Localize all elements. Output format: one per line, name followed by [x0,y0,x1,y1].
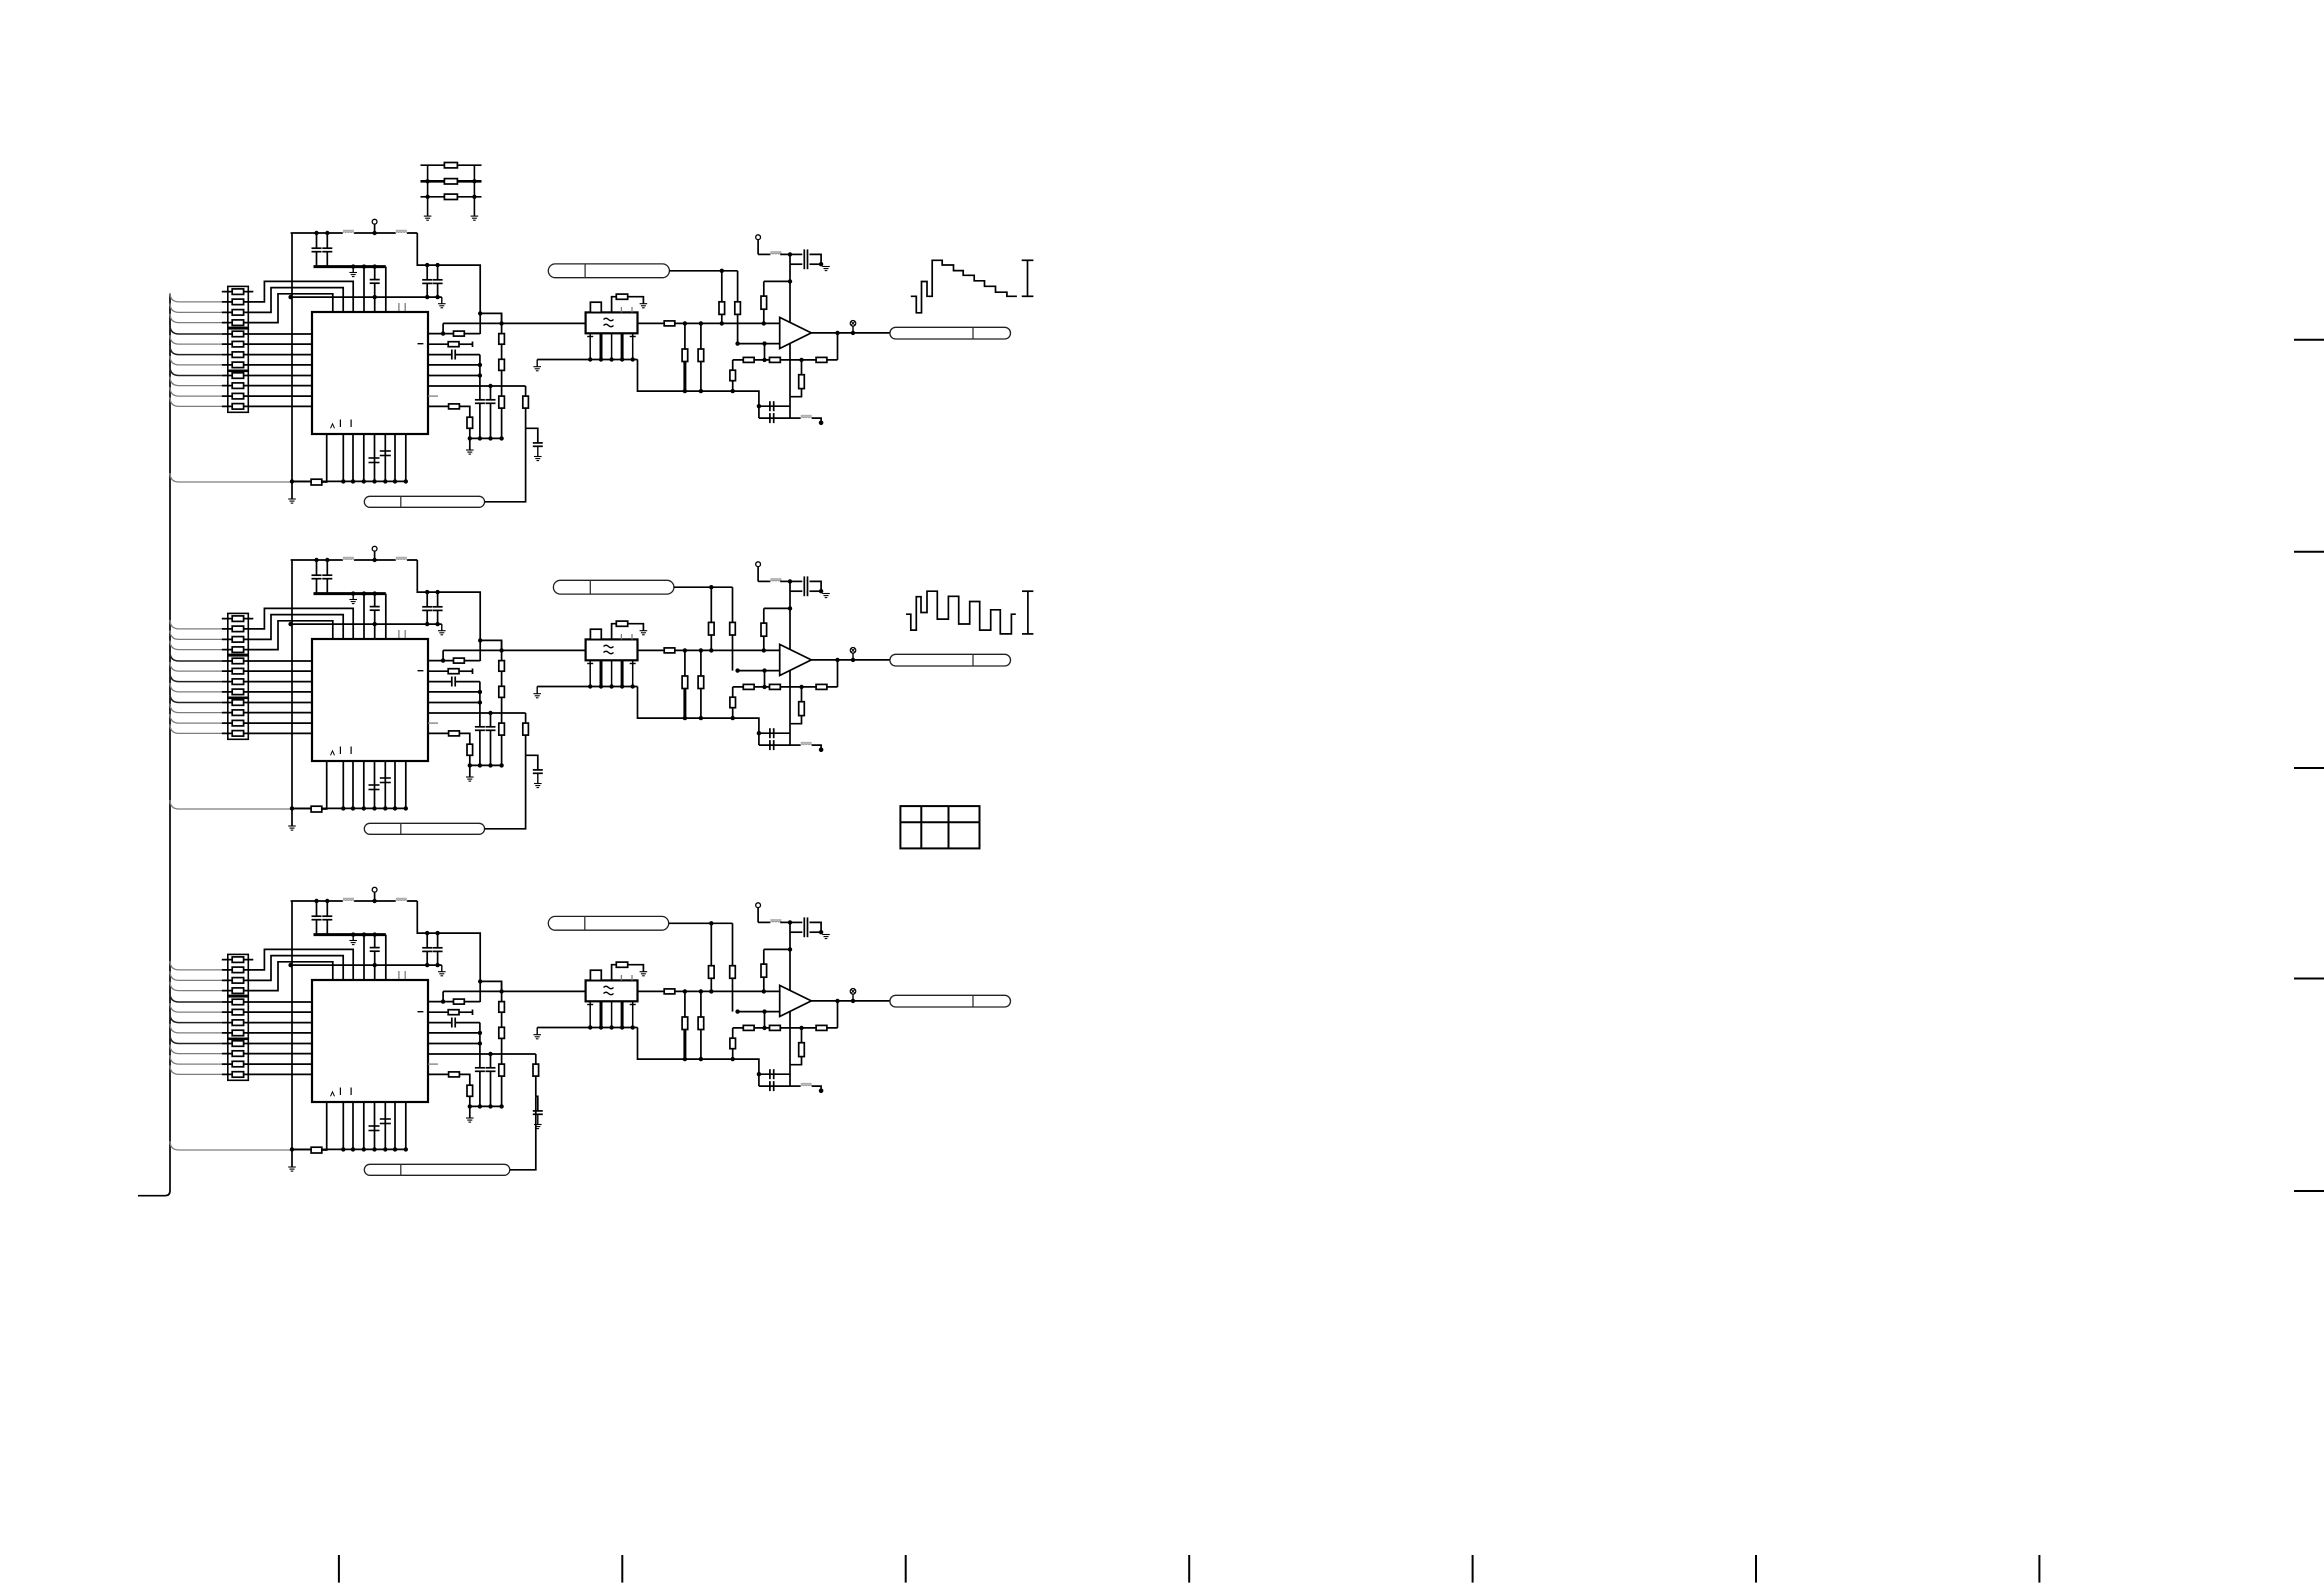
ground filter rail 1 [533,360,541,371]
resistor network RN1c frame [228,371,249,412]
wire ladder row7 to IC 1 [222,354,312,356]
wire ladder row2 to IC top 2 [222,608,353,639]
op-amp A1 [780,317,812,348]
resistor R2 x470 [467,744,473,755]
resistor R2 fb2 [770,684,781,689]
resistor R2 fb3 [816,684,827,689]
wire R1L to IC [322,434,327,482]
capacitor C2 pin5 [380,778,391,783]
resistor R103 [232,310,243,316]
resistor R2 fb1 [743,684,754,689]
ground filter rail 3 [533,1028,541,1039]
wire bus branch 3.10 [170,1055,222,1064]
wire x470 to gnd 2 [468,755,472,777]
wire IC out row1 1 [428,331,454,335]
IC U3 pin1 mark [331,1092,335,1097]
wire IC row8 1 [428,405,449,407]
resistor R3 fb3 [816,1025,827,1030]
wire AVDD to IC pin 3 [362,932,366,980]
resistor R2 x733 [730,687,736,718]
capacitor C2 mid [370,591,380,639]
wire IC bottom pins 1 [341,434,408,484]
resistor R302 [232,967,243,973]
node 2 rail junction [478,638,482,642]
resistor R1 row8 [449,404,460,409]
resistor network RN2b frame [228,656,249,698]
terminal VDD 2 [372,546,377,562]
ground IC left 2 [288,826,296,830]
capacitor C1 row3 [428,350,480,360]
wire riser to filter line 1 [442,323,444,333]
wire filter gnd rail 3 [537,1027,637,1029]
resistor R3 x470 [467,1085,473,1096]
wire bus branch 3.12 [170,1141,311,1150]
wire ladder row3 to IC top 2 [222,615,343,640]
resistor R2 filter top [612,621,644,639]
fold tick bottom 7 [2038,1555,2040,1583]
net label pill top 3 [548,916,668,930]
resistor R104 [232,320,243,326]
wire bus branch 3.11 [170,1065,222,1074]
resistor R3 filter top [612,962,644,980]
wire IC bottom pins 3 [341,1102,408,1152]
wire gray IC pin stub 2a [398,630,400,639]
capacitor C2 at x438 [433,590,443,626]
wire ladder row5 to IC 3 [222,1001,312,1003]
resistor R3 pillnet1 [709,923,715,993]
wire bus branch 1.10 [170,387,222,396]
wire IC row8 3 [428,1073,449,1075]
capacitor C3 x490 [486,1054,496,1106]
resistor R2 filter out [664,648,675,653]
wire to opamp 1 [675,321,780,325]
wire pill top 3 [669,921,733,925]
wire gray IC pin stub 2b [404,630,406,639]
wire R3L to IC [322,1102,327,1150]
wire lower rail 1 [470,436,504,440]
wire IC bottom rail 2 [292,807,406,809]
ground x470 2 [466,777,474,781]
wire filter input line 1 [443,321,585,325]
wire ground line 3 [288,963,441,967]
wire analog gnd rail 2 [638,687,759,734]
wire minus input 2 [735,668,779,672]
resistor R206 [232,668,243,674]
ground IC left 1 [288,499,296,503]
fold tick right 1 [2294,339,2324,341]
resistor R2 row2 [448,669,459,674]
wire filter top stubs 1 [621,307,632,312]
resistor R210 [232,710,243,716]
wire ladder row11 to IC 1 [222,395,312,397]
wire fb riser 1 [764,344,766,360]
resistor R1 x470 [467,417,473,428]
capacitor C1 row406 [757,401,790,411]
wire bus branch 1.3 [170,314,222,323]
wire bus branch 2.3 [170,641,222,650]
resistor R3 filter out [664,989,675,994]
wire ground line 2 [288,622,441,626]
wire ladder row6 to IC 1 [222,343,312,345]
resistor R308 [232,1030,243,1036]
resistor R2 pillnet2 [730,587,736,670]
wire row2 end 2 [459,669,473,675]
resistor R2 x701 [698,650,704,718]
wire 3R row1 [421,164,482,166]
node 3 rail junction [478,979,482,983]
resistor R1a [444,163,457,168]
fold tick right 4 [2294,978,2324,980]
ferrite bead FB31 [343,898,354,901]
wire bus branch 3.3 [170,982,222,991]
wire filter top stubs 2 [621,634,632,639]
wire row8 bend 1 [459,406,470,417]
wire AVDD end pin 1 [385,267,387,312]
IC U3 index marks [340,1088,351,1096]
table grid [900,806,979,848]
wire gray IC pin stub 3b [404,971,406,980]
wire bus branch 3.4 [170,993,222,1002]
wire riser to filter line 3 [442,991,444,1001]
filter FL3 glyph [604,986,614,995]
wire AVDD bold rail 3 [314,933,386,936]
wire bus branch 2.2 [170,630,222,639]
wire opamp rail 3 [788,922,792,1086]
capacitor C1 pin4 [369,458,380,463]
resistor R1 pillnet2 [735,271,741,344]
wire output 3 [811,999,890,1003]
wire ladder row10 to IC 1 [222,385,312,387]
resistor R304 [232,988,243,994]
resistor R211 [232,720,243,726]
ferrite bead FB21 [343,557,354,560]
wire rail corner 2 [417,560,480,661]
resistor R301 [232,957,243,963]
fold tick bottom 2 [621,1555,623,1583]
wire bus branch 1.4 [170,325,222,334]
wire bus branch 2.1 [170,620,222,629]
resistor R3 fb2 [770,1025,781,1030]
wire VDD rail 2 [291,559,418,561]
terminal VDD 1 [372,219,377,235]
wire cap branch 3 [536,1096,538,1111]
filter FL1 glyph [604,318,614,327]
wire filter gnd rail 2 [537,686,637,688]
wire row8 bend 2 [459,733,470,744]
wire IC row4 2 [428,691,480,693]
resistor R106 [232,341,243,347]
wire ladder row4 to IC top 2 [222,621,333,650]
resistor R108 [232,362,243,368]
wire IC row4 1 [428,364,480,366]
wire ladder row1 3 [222,959,254,961]
resistor R2L [311,806,322,812]
waveform square scale bar [1022,591,1033,634]
ferrite bead FB34 [758,920,792,925]
wire IC left vertical 2 [290,560,294,826]
wire riser to filter line 2 [442,650,444,660]
op-amp A3 [780,985,812,1016]
resistor chain x502 3 [499,981,505,1106]
resistor R204 [232,647,243,653]
capacitor C2 vplus a [790,576,821,591]
resistor R1 x685 [682,323,688,391]
filter FL2 [586,639,638,660]
wire IC row5 1 [428,363,482,378]
resistor R2 x801 [790,687,804,724]
terminal V+ 3 [756,903,761,923]
net label pill bottom 1 [364,496,484,507]
wire bus spine [138,294,170,1196]
resistor R3 pillnet2 [730,923,736,1011]
wire filter gnd rail 1 [537,359,637,361]
resistor R3 fb1 [743,1025,754,1030]
capacitor C3 row418 [759,1074,790,1091]
ferrite bead FB22 [396,557,407,560]
resistor R3 x685 [682,991,688,1059]
wire x470 to gnd 1 [468,428,472,450]
resistor R1 row1 [454,331,465,336]
wire IC bottom rail 1 [292,480,406,482]
resistor cluster rails [428,165,475,216]
wire filter input line 2 [443,648,585,652]
capacitor C1 pin5 [380,451,391,456]
ground x538 3 [534,1125,542,1129]
terminal out 3 [850,989,856,1001]
net label pill out 3 [890,995,1011,1007]
resistor network RN2c frame [228,698,249,739]
capacitor C1 decouple x327 [322,231,332,267]
resistor R202 [232,626,243,632]
fold tick bottom 4 [1188,1555,1190,1583]
wire bus branch 3.1 [170,961,222,970]
wire AVDD bold rail 1 [314,265,386,268]
wire IC row5 3 [428,1031,482,1046]
wire ladder row6 to IC 3 [222,1011,312,1013]
fold tick bottom 5 [1472,1555,1474,1583]
fold tick bottom 6 [1755,1555,1757,1583]
resistor R1 fb top [761,296,767,309]
waveform staircase [911,260,1017,313]
resistor R110 [232,383,243,389]
capacitor C3 vplus a [790,917,821,932]
resistor R2 row8 [449,731,460,736]
wire riser x526 1 [525,386,527,428]
wire fb top 2 [764,608,790,623]
wire IC out row1 2 [428,658,454,662]
resistor R1 x801 [790,360,804,397]
IC U1 pin1 mark [331,424,335,429]
wire bus branch 3.2 [170,971,222,980]
resistor R2 row1 [454,658,465,663]
wire AVDD to IC pin 2 [362,591,366,639]
wire ladder row4 to IC top 1 [222,294,333,323]
capacitor C2 row418 [759,733,790,750]
capacitor C2 vplus b [790,586,821,596]
wire bus branch 1.8 [170,367,222,376]
wire pill bottom 3 [510,1096,536,1170]
wire to opamp 3 [675,989,780,993]
wire 3R row3 [421,195,482,199]
net label pill bottom 3 [364,1164,510,1175]
resistor R2 x526 [523,723,529,735]
capacitor C2 row406 [757,728,790,738]
wire bus branch 3.5 [170,1003,222,1012]
wire ladder row9 to IC 1 [222,375,312,377]
wire to opamp 2 [675,648,780,652]
wire minus input 1 [735,341,779,345]
waveform square [906,591,1016,634]
ferrite bead FB13 [790,416,821,422]
wire IC row7 stub 3 [428,1063,438,1065]
IC U2 [312,639,428,761]
wire filter input line 3 [443,989,585,993]
resistor R306 [232,1009,243,1015]
wire IC row5 2 [428,690,482,705]
wire filter pins 1 [588,333,635,361]
wire fb riser 2 [764,671,766,687]
wire ladder row12 to IC 2 [222,732,312,734]
capacitor C1 x538 [533,443,543,457]
wire filter out 2 [638,649,665,651]
wire row1 end 3 [464,1001,480,1003]
resistor R1 filter top [612,294,644,312]
IC U3 [312,980,428,1102]
wire bus branch 1.6 [170,346,222,355]
capacitor C3 vplus b [790,927,821,937]
wire lower rail 3 [470,1104,504,1108]
terminal out 2 [850,648,856,660]
resistor R307 [232,1020,243,1026]
ground filter top 3 [640,972,648,976]
capacitor C1 row418 [759,406,790,423]
ground x538 1 [534,457,542,461]
wire IC left vertical 1 [290,233,294,499]
op-amp A2 [780,644,812,675]
wire to filter line 1 [480,313,501,323]
wire rail corner 1 [417,233,480,334]
capacitor C1 mid [370,264,380,312]
ferrite bead FB23 [790,743,821,749]
wire fb row 1 [733,358,838,362]
resistor network RN2a frame [228,613,249,654]
wire ladder row11 to IC 3 [222,1063,312,1065]
wire riser x526 2 [525,713,527,755]
capacitor C3 decouple x327 [322,899,332,935]
capacitor C2 pin4 [369,785,380,790]
resistor R1 filter out [664,321,675,326]
terminal V+ 1 [756,235,761,255]
capacitor C3 pin4 [369,1126,380,1131]
resistor R209 [232,700,243,706]
resistor R312 [232,1072,243,1078]
capacitor C1 at x427 [422,263,432,299]
wire analog gnd rail 3 [638,1028,759,1075]
ground stub on AVDD 1 [349,264,357,276]
capacitor C1 x480 [475,355,485,439]
wire fb top drop 2 [763,636,765,650]
wire ladder row12 to IC 1 [222,405,312,407]
wire AVDD bold rail 2 [314,592,386,595]
wire bus branch 2.10 [170,714,222,723]
resistor R1 x733 [730,360,736,391]
wire bus branch 1.7 [170,356,222,365]
wire ground line 1 [288,295,441,299]
wire cap branch 2 [526,755,538,770]
wire row8 bend 3 [459,1074,470,1085]
ground filter rail 2 [533,687,541,698]
wire bus branch 2.5 [170,662,222,671]
wire VDD rail 1 [291,232,418,234]
resistor R3 x701 [698,991,704,1059]
resistor R2 x685 [682,650,688,718]
wire cap branch 1 [526,428,538,443]
fold tick right 5 [2294,1190,2324,1192]
capacitor C1 decouple x316 [312,231,322,267]
wire gray IC pin stub 1b [404,303,406,312]
wire filter top stubs 3 [621,975,632,980]
wire fb top 1 [764,281,790,296]
IC U2 minus mark [418,670,424,672]
wire ladder row1 1 [222,291,254,293]
wire AVDD end pin 3 [385,935,387,980]
ground filter top 2 [640,631,648,635]
ground x470 1 [466,450,474,454]
resistor network RN1a frame [228,286,249,327]
wire ladder row8 to IC 3 [222,1032,312,1034]
resistor R1 pillnet1 [719,271,725,326]
wire bus branch 1.9 [170,377,222,386]
wire IC out row2 1 [428,343,448,345]
wire bus branch 3.6 [170,1014,222,1023]
wire fb top drop 1 [763,309,765,323]
wire ladder row3 to IC top 3 [222,956,343,981]
wire bus branch 2.8 [170,694,222,703]
resistor R303 [232,978,243,984]
capacitor C2 x490 [486,713,496,765]
wire fb to out 1 [835,331,839,360]
ground vplus 3 [819,930,830,939]
capacitor C3 decouple x316 [312,899,322,935]
ferrite bead FB33 [790,1084,821,1090]
resistor chain x502 1 [499,313,505,438]
wire fb top drop 3 [763,977,765,991]
resistor R305 [232,999,243,1005]
net label pill top 2 [553,580,674,594]
resistor R112 [232,404,243,410]
resistor R1L [311,479,322,485]
ferrite bead FB11 [343,230,354,233]
resistor R1 x526 [523,396,529,408]
wire opamp rail 1 [788,254,792,418]
wire IC left vertical 3 [290,901,294,1167]
fold tick bottom 3 [905,1555,907,1583]
wire bus branch 2.12 [170,800,311,809]
resistor R3 fb top [761,964,767,977]
wire filter pin ticks 2 [587,663,636,665]
terminal analog gnd 2 [819,748,824,753]
wire fb to out 2 [835,658,839,687]
wire output 1 [811,331,890,335]
resistor R111 [232,393,243,399]
wire ladder row8 to IC 1 [222,364,312,366]
wire ladder row10 to IC 2 [222,712,312,714]
resistor R1 fb3 [816,357,827,362]
wire analog gnd rail 1 [638,360,759,407]
wire fb row 2 [733,685,838,689]
wire row2 end 1 [459,342,473,348]
IC U1 [312,312,428,434]
